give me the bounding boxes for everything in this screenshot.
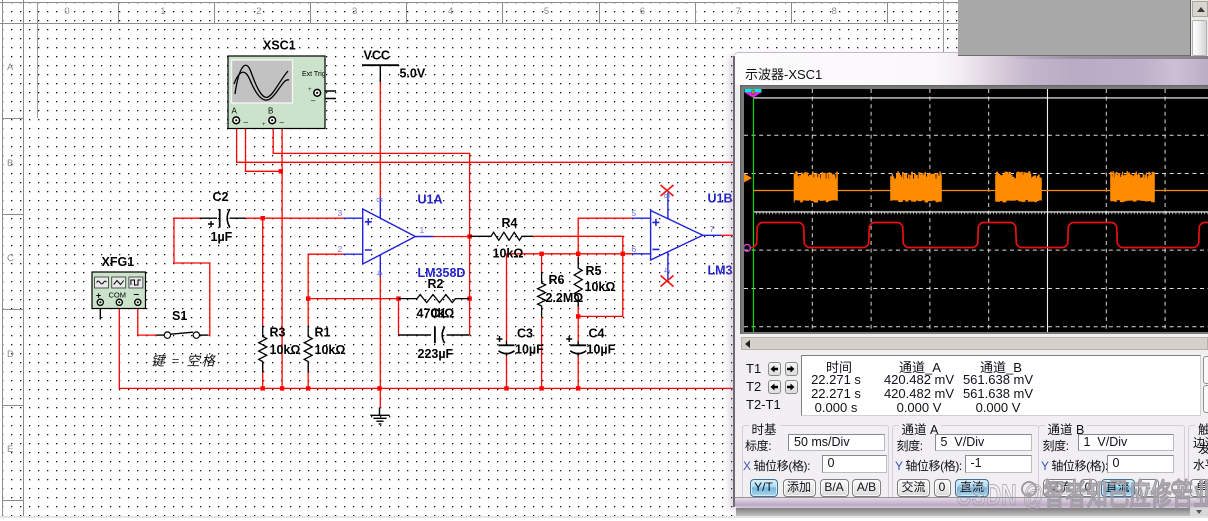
svg-text:R3: R3 [270,326,286,340]
svg-text:R5: R5 [586,264,602,278]
svg-text:R2: R2 [428,277,444,291]
svg-text:10kΩ: 10kΩ [315,343,346,357]
svg-text:U1A: U1A [418,193,443,207]
svg-text:C1: C1 [431,307,447,321]
svg-text:R1: R1 [315,326,331,340]
svg-text:3: 3 [338,208,343,218]
svg-text:Ext Trig: Ext Trig [302,71,326,78]
svg-text:键 = 空格: 键 = 空格 [151,354,216,369]
svg-text:10kΩ: 10kΩ [493,247,524,261]
svg-text:5: 5 [632,208,637,218]
svg-text:S1: S1 [172,309,187,323]
svg-text:1µF: 1µF [211,230,233,244]
svg-text:R6: R6 [549,273,565,287]
svg-text:VCC: VCC [364,49,390,63]
svg-text:B: B [268,107,273,116]
svg-text:7: 7 [710,224,715,234]
svg-text:8: 8 [662,194,672,199]
svg-text:8: 8 [375,198,385,203]
svg-text:10µF: 10µF [515,343,544,357]
svg-text:C3: C3 [517,327,533,341]
svg-text:10kΩ: 10kΩ [270,343,301,357]
svg-text:4: 4 [662,268,672,273]
svg-text:10µF: 10µF [587,343,616,357]
svg-text:C2: C2 [213,190,229,204]
svg-text:223µF: 223µF [418,347,454,361]
svg-text:U1B: U1B [708,192,733,206]
svg-text:6: 6 [632,244,637,254]
svg-text:10kΩ: 10kΩ [585,280,616,294]
svg-text:–: – [280,118,285,127]
svg-text:R4: R4 [502,216,518,230]
svg-text:XSC1: XSC1 [263,39,296,53]
svg-text:A: A [232,107,238,116]
svg-text:+: + [262,122,266,128]
svg-text:2: 2 [338,244,343,254]
svg-text:–: – [244,118,249,127]
svg-text:COM: COM [109,291,127,300]
svg-text:4: 4 [375,271,385,276]
svg-text:–: – [311,96,316,105]
svg-text:+: + [308,87,312,93]
svg-text:2.2MΩ: 2.2MΩ [546,291,584,305]
svg-text:5.0V: 5.0V [400,67,426,81]
svg-text:+: + [226,122,230,128]
svg-text:1: 1 [420,225,425,235]
svg-text:–: – [134,289,140,300]
svg-text:XFG1: XFG1 [102,255,135,269]
svg-text:C4: C4 [589,327,605,341]
